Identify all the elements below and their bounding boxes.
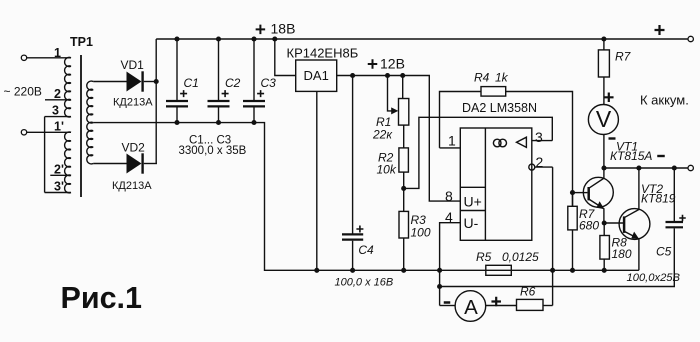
junction dot R2/R3 divider: [401, 186, 406, 191]
wire R7-680 bottom: [572, 230, 574, 270]
mains terminal bottom (~220V line 1'): [21, 130, 26, 135]
wire C2 bottom: [218, 108, 220, 123]
junction dot DA1 gnd bottom bus: [314, 268, 319, 273]
svg-text:1: 1: [448, 133, 456, 149]
op-amp DA2 pin column divider: [484, 128, 486, 240]
wire C3 bottom: [253, 108, 255, 123]
svg-text:R6: R6: [520, 285, 536, 299]
transistor VT1 base bar: [587, 187, 590, 200]
transformer TP1 primary winding 1'-2'-3': [65, 132, 71, 193]
junction dot pin2/R5/R6 node: [550, 268, 555, 273]
label C2 plus: [222, 90, 229, 97]
svg-text:К аккум.: К аккум.: [640, 93, 689, 108]
wire pin 4 (U- supply): [440, 223, 461, 306]
wire R8 top: [603, 223, 605, 236]
svg-text:680: 680: [579, 219, 599, 233]
wire C1 bottom: [176, 108, 178, 123]
junction dot VT2 collector minus bus: [636, 165, 641, 170]
label ammeter minus: [444, 301, 451, 304]
svg-text:0,0125: 0,0125: [502, 250, 539, 264]
junction dot C2 mid bus: [216, 120, 221, 125]
svg-text:КР142ЕН8Б: КР142ЕН8Б: [287, 46, 359, 61]
resistor R7: [598, 50, 609, 77]
wire voltmeter to minus bus: [603, 135, 605, 169]
junction dot C1 top bus: [174, 36, 179, 41]
wire R2 to junction: [403, 172, 405, 211]
svg-text:C4: C4: [358, 243, 374, 257]
transistor VT2 collector: [624, 168, 639, 218]
junction dot V/VT1 minus bus: [601, 165, 606, 170]
transformer TP1 primary winding 1-2-3: [65, 57, 71, 117]
label + at battery terminal: [655, 25, 665, 35]
resistor R7 680: [568, 206, 577, 230]
svg-text:А: А: [464, 296, 478, 319]
wire C3 top: [253, 39, 255, 100]
junction dot C3 top bus: [251, 36, 256, 41]
op-amp gain symbol (infinity): [493, 139, 501, 147]
svg-text:10k: 10k: [377, 163, 397, 177]
svg-text:КТ819: КТ819: [641, 192, 676, 206]
wire DA1 input riser: [275, 39, 296, 76]
svg-text:8: 8: [445, 188, 453, 204]
transistor VT1 emitter arrow: [596, 201, 604, 209]
resistor R6: [517, 299, 544, 310]
label voltmeter plus: [604, 93, 614, 103]
terminal - to battery: [688, 165, 693, 170]
svg-text:180: 180: [612, 247, 632, 261]
wire C1 top: [176, 39, 178, 100]
svg-text:C5: C5: [656, 245, 672, 259]
wire minus bus: [604, 167, 688, 169]
label - at battery terminal: [657, 155, 665, 157]
junction dot C4 bottom: [350, 268, 355, 273]
junction dot R1 top bus: [400, 73, 405, 78]
diode VD2: [127, 154, 142, 174]
svg-text:U-: U-: [464, 215, 479, 231]
wire pin 3: [532, 140, 553, 142]
label C3 plus: [257, 90, 264, 97]
resistor R3: [399, 211, 409, 238]
wire C4 bottom: [352, 241, 354, 271]
junction dot R1 wiper bus: [385, 73, 390, 78]
svg-text:3': 3': [54, 180, 64, 194]
resistor R4: [481, 87, 506, 97]
svg-text:R4: R4: [474, 71, 490, 85]
wire to ammeter minus: [440, 305, 456, 307]
capacitor C3: [243, 100, 265, 102]
resistor R1 (trimmer): [399, 99, 409, 126]
wire secondary top to VD1 anode: [93, 81, 126, 83]
wire VD1 cathode to node: [144, 81, 156, 83]
svg-text:C3: C3: [261, 76, 277, 90]
svg-text:3300,0 х 35В: 3300,0 х 35В: [179, 145, 247, 157]
junction dot pin4 riser bottom bus: [437, 268, 442, 273]
svg-text:Рис.1: Рис.1: [61, 281, 143, 315]
wire C5 top: [673, 168, 675, 221]
label C1 plus: [180, 90, 187, 97]
svg-text:3: 3: [535, 129, 543, 145]
capacitor C2: [208, 100, 230, 102]
op-amp DA2 box: [460, 128, 532, 240]
op-amp output triangle symbol: [517, 137, 527, 147]
svg-text:4: 4: [445, 209, 453, 225]
junction dot VT1 base node: [570, 190, 575, 195]
capacitor C4: [342, 233, 363, 235]
wire R7-680 top: [572, 193, 574, 207]
capacitor C5: [666, 221, 684, 223]
ammeter PA (A): [455, 291, 486, 322]
wire +12V bus: [337, 76, 461, 202]
junction dot VD1/VD2 cathodes: [154, 79, 159, 84]
transistor VT2 circle: [619, 209, 650, 240]
transformer TP1 secondary winding upper: [87, 81, 93, 164]
svg-text:VD1: VD1: [121, 58, 145, 72]
wire VT2 base: [604, 222, 623, 224]
svg-text:100,0 х 16В: 100,0 х 16В: [335, 277, 394, 289]
junction dot R7 top bus: [601, 36, 606, 41]
tap 2' wire: [50, 174, 71, 176]
wire lower return line: [440, 228, 675, 286]
svg-text:DA1: DA1: [304, 68, 329, 83]
wire R1 top: [402, 76, 404, 99]
transistor VT1 collector: [589, 168, 604, 188]
wire R4 to VT1 base node: [506, 92, 573, 207]
op-amp DA2 U+ cell line: [460, 186, 485, 188]
svg-text:100,0х25В: 100,0х25В: [627, 272, 681, 284]
wire pin 2: [535, 166, 553, 168]
wire mains bottom to winding 1': [27, 131, 71, 133]
wire pin 2 riser to shunt node: [552, 167, 554, 305]
wire 3 to 3' (series link): [44, 117, 46, 193]
svg-text:12В: 12В: [380, 55, 405, 71]
tap 3 wire: [45, 116, 71, 118]
wire C2 top: [218, 39, 220, 100]
resistor R5 (shunt): [486, 265, 512, 275]
junction dot VT1 emitter / VT2 base: [602, 220, 607, 225]
svg-text:2: 2: [536, 154, 544, 170]
wire C4 top: [352, 76, 354, 234]
wire centre tap bus: [93, 123, 639, 271]
svg-text:22к: 22к: [372, 128, 393, 142]
label C5 plus: [679, 215, 686, 222]
capacitor C1: [166, 100, 188, 102]
transistor VT1 emitter: [589, 199, 604, 223]
wire pin1 to R4: [440, 92, 482, 148]
R1 wiper arrow: [391, 107, 398, 114]
svg-text:2': 2': [54, 162, 64, 176]
wire VD2 cathode to node: [144, 163, 157, 165]
transistor VT2 emitter arrow: [631, 232, 639, 240]
svg-text:КД213А: КД213А: [113, 97, 153, 109]
svg-text:1': 1': [54, 120, 64, 134]
svg-text:1: 1: [54, 46, 61, 60]
svg-text:R7: R7: [615, 50, 632, 64]
wire VT1 base: [573, 192, 588, 194]
transformer TP1 core: [80, 55, 82, 197]
transistor VT1 circle: [583, 177, 613, 207]
svg-text:ТР1: ТР1: [70, 35, 93, 49]
mains terminal top (~220V line 1): [21, 55, 26, 60]
wire R1 wiper: [388, 76, 393, 111]
junction dot C4 top: [350, 73, 355, 78]
junction dot C5 top minus bus: [672, 165, 677, 170]
wire pin 1: [440, 147, 461, 149]
label +12V plus: [368, 59, 378, 69]
svg-text:V: V: [596, 106, 612, 132]
wire R7 top: [603, 39, 605, 50]
terminal + to battery: [688, 36, 693, 41]
junction dot R7-680 bottom bus: [570, 268, 575, 273]
svg-text:1k: 1k: [495, 71, 509, 85]
junction dot DA1 riser top bus: [272, 36, 277, 41]
svg-text:~ 220В: ~ 220В: [4, 85, 42, 99]
label voltmeter minus: [609, 137, 616, 139]
wire mains top to winding 1: [27, 57, 71, 59]
wire secondary bottom to VD2 anode: [93, 163, 126, 165]
svg-text:КД213А: КД213А: [112, 180, 152, 192]
voltage regulator DA1 box: [296, 60, 337, 91]
label ammeter plus: [491, 297, 501, 307]
wire winding bottom 3': [45, 192, 71, 194]
resistor R2: [399, 148, 409, 172]
junction dot C1 mid bus: [174, 120, 179, 125]
junction dot lower line left: [437, 284, 442, 289]
wire R8 bottom: [603, 259, 605, 270]
wire DA1 ground pin: [316, 91, 318, 270]
junction dot R3 bottom bus: [401, 268, 406, 273]
wire cathode node riser to +18V bus: [155, 39, 157, 164]
junction dot R8 bottom bus: [602, 268, 607, 273]
junction dot C3 mid bus: [251, 120, 256, 125]
svg-text:2: 2: [54, 87, 61, 101]
svg-text:18В: 18В: [271, 21, 296, 37]
svg-text:R5: R5: [476, 250, 492, 264]
label C4 plus: [356, 226, 363, 233]
svg-text:3: 3: [52, 104, 59, 118]
label +18V plus: [256, 25, 266, 35]
wire R6 to shunt node: [543, 305, 553, 307]
svg-text:VD2: VD2: [122, 141, 146, 155]
wire R7 to voltmeter: [603, 77, 605, 105]
wire +18V top bus: [156, 38, 688, 40]
wire divider to op-amp pin 3: [404, 117, 553, 188]
svg-text:100: 100: [411, 226, 431, 240]
voltmeter PV (V): [588, 105, 618, 135]
op-amp DA2 U+/U- cell line: [460, 210, 485, 212]
tap 2 wire: [45, 99, 71, 101]
op-amp pin 2 output circle: [529, 164, 535, 170]
transistor VT2 base bar: [623, 216, 626, 233]
svg-text:DA2 LM358N: DA2 LM358N: [462, 101, 537, 115]
diode VD1: [127, 72, 142, 92]
junction dot C2 top bus: [216, 36, 221, 41]
wire ammeter to R6: [486, 305, 517, 307]
svg-text:C1: C1: [184, 76, 199, 90]
svg-text:КТ815А: КТ815А: [610, 149, 652, 163]
svg-text:C2: C2: [225, 76, 241, 90]
wire R1-R2: [403, 125, 405, 148]
resistor R8: [600, 236, 610, 260]
wire R3 bottom: [403, 238, 405, 270]
svg-text:U+: U+: [464, 194, 482, 210]
transistor VT2 emitter: [624, 231, 639, 270]
